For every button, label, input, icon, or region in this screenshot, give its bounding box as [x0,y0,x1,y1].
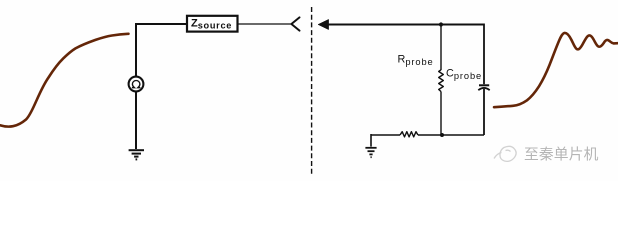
input step waveform (source signal) [0,34,129,127]
wire from resistor to capacitor bottom [418,134,484,136]
svg-text:至秦单片机: 至秦单片机 [524,146,599,163]
node junction dot (top) [439,22,443,26]
wire from node to Zsource (top-left horizontal) [136,23,186,25]
wire vertical from corner down to source [135,23,137,77]
arrowhead pointing left (probe side) [318,19,329,29]
wire right vertical (top to capacitor) [483,24,485,85]
wire from source to ground [135,92,137,149]
probe tip (open arrowhead) [291,17,299,30]
dashed separator line [311,7,313,174]
ground (left) [129,150,144,159]
wire capacitor to bottom wire [483,89,485,135]
source omega symbol [132,81,141,88]
wire from Zsource to probe tip [238,23,291,25]
source V1 (circle) [129,77,144,92]
output waveform with ringing [494,33,618,107]
watermark text [524,146,600,164]
watermark logo [494,146,516,161]
capacitor Cprobe top plate [479,84,489,86]
wire bottom (ground rail) [371,134,400,136]
resistor Rprobe (vertical zigzag) [439,70,444,92]
wire ground stub (right) [370,134,372,147]
resistor (horizontal zigzag on ground rail) [400,132,418,137]
wire down from top node to Rprobe [440,25,442,71]
node junction dot (bottom) [440,133,444,137]
resistor Zsource (box) [187,16,238,32]
wire from Rprobe to bottom node [440,92,442,136]
capacitor Cprobe curved plate [478,88,489,90]
wire top (probe side horizontal) [328,24,484,26]
ground (right) [365,148,376,157]
